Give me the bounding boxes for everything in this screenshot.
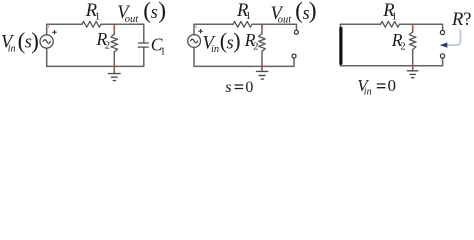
svg-text:): )	[233, 28, 240, 53]
svg-text:in: in	[364, 86, 372, 97]
svg-text:?: ?	[463, 10, 471, 30]
svg-text:2: 2	[400, 42, 405, 53]
svg-text:out: out	[125, 14, 140, 25]
svg-text:1: 1	[160, 46, 165, 57]
svg-text:s: s	[151, 3, 158, 23]
svg-text:): )	[158, 0, 166, 24]
svg-text:0: 0	[388, 76, 397, 95]
svg-text:in: in	[211, 44, 219, 55]
svg-text:R: R	[451, 10, 463, 30]
svg-text:2: 2	[105, 41, 110, 52]
svg-text:1: 1	[246, 10, 252, 22]
svg-text:0: 0	[245, 79, 253, 96]
svg-text:1: 1	[95, 10, 101, 22]
svg-text:1: 1	[392, 11, 398, 23]
svg-text:): )	[309, 0, 317, 24]
svg-text:2: 2	[253, 42, 258, 53]
svg-text:s: s	[225, 79, 231, 96]
svg-text:): )	[31, 29, 39, 54]
svg-text:out: out	[278, 15, 293, 26]
svg-text:in: in	[8, 43, 16, 54]
